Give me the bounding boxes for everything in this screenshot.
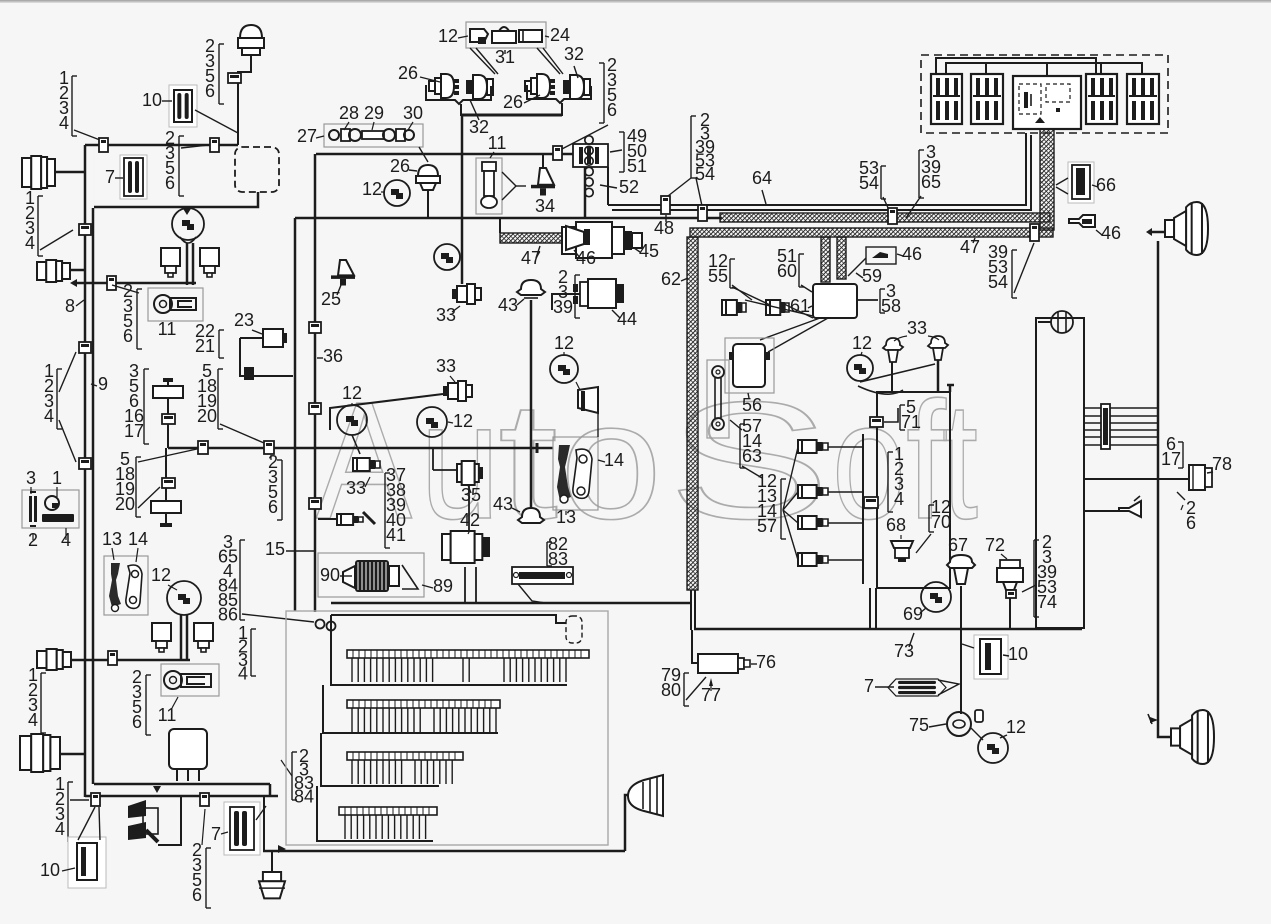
label 68 [886,515,906,539]
starter 45 [562,222,642,258]
connector under switch [162,414,175,424]
svg-text:78: 78 [1212,454,1232,474]
junction tick on bus y448 [536,443,539,453]
connector x557 y146 [553,146,562,160]
label 23 [234,310,262,334]
relay unit center [1013,76,1081,129]
dome lamp bottom-left [259,851,285,898]
svg-text:14: 14 [128,529,148,549]
svg-text:80: 80 [661,680,681,700]
label 7 top-left [105,167,123,187]
svg-text:6: 6 [1186,513,1196,533]
fuse 7 top-left [120,155,147,199]
wire comp44 [552,294,580,310]
label 1 2 3 4 col (cab right) [238,623,256,684]
label 2 3 5 6 col (x273) [268,452,282,520]
tick on box top [947,385,954,392]
label 36 [317,346,343,366]
svg-text:73: 73 [894,641,914,661]
label 62 [661,269,688,289]
wire x608 stub [607,167,609,205]
harness V2 vertical [687,237,698,590]
wire lamp L1 tap [55,171,85,174]
label 2 3 39 53 54 col [691,110,715,184]
label 33 c [346,477,370,498]
wire 43 vertical [530,300,533,508]
label 57 14 63 [740,416,762,468]
svg-text:4: 4 [44,406,54,426]
svg-text:42: 42 [460,510,480,530]
label 11 (plug) [488,133,507,158]
indicator lamp mid [318,512,375,525]
svg-text:52: 52 [619,177,639,197]
fuse 10 bottom-right [974,635,1008,679]
top box 31 group [466,22,546,48]
label 69 [903,604,926,624]
label 5 18 19 20 col (lower) [115,449,141,517]
label 13 center [556,507,576,527]
leader V left [470,48,498,74]
spark plug 11 box [476,158,502,214]
circle 12 (sensor pair) [847,355,873,381]
label 12 70 col [929,497,951,532]
clearance lamp top [238,25,264,55]
motor 90 [343,560,399,592]
arrow 89 [402,565,418,589]
svg-text:11: 11 [158,705,177,725]
label 82 83 [547,534,568,569]
wire bottom bus y851 [263,850,625,853]
leader 2356 to conn [181,145,208,148]
leader 12 55 [732,285,770,305]
label 6 17 col [1161,434,1183,469]
label 12 c [342,383,362,406]
label 46 right [1096,223,1121,243]
leader 2356 up [202,809,205,845]
pump item 1 [42,496,74,522]
wire lamp L4 tap [60,753,85,756]
wire stalk to bus [158,797,181,845]
svg-text:44: 44 [617,309,637,329]
label 15 [265,539,315,559]
connector 5-71 [870,417,883,427]
junction circles [316,620,336,631]
speedo box 27-30 [324,124,423,147]
leader 2-54 a [668,178,702,206]
comp 46 right [1069,215,1095,227]
label 35 [461,485,481,505]
label 12 (sensor pair) [852,333,872,355]
label 26 (right horn) [503,92,540,112]
svg-text:21: 21 [195,336,215,356]
label 12 d [554,333,574,356]
leader to connector [74,130,100,140]
wire lamps to vertical [828,434,863,584]
svg-text:12: 12 [852,333,872,353]
connector bus y448 b [264,441,274,454]
comp 23 valve [263,329,287,347]
svg-text:7: 7 [211,824,221,844]
lamp 3 of 4 [798,516,828,529]
plug leader [502,172,526,200]
lamp L1 left edge [22,156,55,189]
svg-text:12: 12 [1006,717,1026,737]
svg-text:11: 11 [488,133,507,153]
comb row 4 [339,807,437,839]
gauge 82 83 [512,567,573,584]
horn bracket right [527,85,591,116]
wire bus y218 [295,217,722,220]
leader 49-51 [610,150,622,152]
leader 2356 diag [560,125,608,150]
leader to conn y800 [70,799,89,801]
svg-text:69: 69 [903,604,923,624]
comb row 4 bottom wire [317,786,433,841]
sensor 33 a [452,284,481,304]
svg-text:41: 41 [386,525,406,545]
svg-text:46: 46 [902,244,922,264]
wires inside dashed box [936,58,1142,76]
label 1 2 3 4 col (x30) [25,188,43,256]
stalk arrows [128,800,158,842]
svg-text:10: 10 [40,860,60,880]
svg-text:4: 4 [25,233,35,253]
label 46 mid [574,248,596,268]
svg-text:32: 32 [564,44,584,64]
wire interior vertical x293 [294,218,297,611]
harness H2 horizontal [690,228,1053,237]
label 2 3 5 6 (cab) [132,667,151,735]
svg-text:64: 64 [752,168,772,188]
fog lamp bottom [628,775,663,816]
svg-text:56: 56 [742,395,762,415]
wire harness tail to bus [691,590,695,630]
sensor 33 pair b [928,336,948,360]
label 26 (coil) [390,156,417,176]
svg-text:33: 33 [907,318,927,338]
cap 43 top [517,280,545,298]
label 33 (pair) [894,318,939,341]
label 3 5 6 16 17 col [124,361,149,444]
svg-text:29: 29 [364,103,384,123]
svg-text:36: 36 [323,346,343,366]
label 34 [535,196,555,216]
buzzer horn icon [1119,496,1141,517]
leader 75 to 12 [971,728,983,740]
leader 57 col [730,420,762,478]
wire comb-area top [331,602,691,605]
wire comp35 to bus [433,448,457,470]
svg-text:6: 6 [205,81,215,101]
cap 43 bottom [518,508,544,523]
speedo cable glyph [329,129,414,141]
label 47 right [960,237,980,257]
wire fog lamp drop [625,795,628,851]
lamp socket cab left (down) [152,623,171,652]
chain 52 [585,136,593,197]
lamp stem pair [187,243,193,285]
stalk box 13 14 [104,556,148,615]
label 2 6 col [1177,492,1196,533]
wire second left vertical [92,208,95,784]
label 43 top [498,295,524,315]
sensor 33 pair a [883,338,903,362]
ignition switch 11 box [148,288,203,321]
svg-text:24: 24 [550,25,570,45]
leader 39-54 [1014,243,1034,293]
svg-text:3: 3 [26,468,36,488]
label 51 60 [777,246,804,287]
label 39 53 54 (right) [988,242,1017,298]
label 1 2 3 4 col (x49) [44,361,62,429]
svg-text:59: 59 [862,266,882,286]
wire comp35 to comp42 [468,484,470,531]
connector y796 b [200,793,209,806]
label 3 39 65 col [919,142,941,198]
comb wires to rear [1084,408,1158,445]
cone 46 mid [566,226,590,250]
sensor 33 b [443,381,472,401]
wire top-left horizontal [85,144,238,147]
label 37-41 col [385,465,406,548]
leader 30 to coil [419,147,428,162]
svg-text:45: 45 [639,241,659,261]
ignition lock 75 [947,710,983,736]
lever 14 [126,565,142,608]
label 12 (coil) [362,179,385,199]
relay 51 60 box [813,284,857,318]
comb box frame [286,611,608,845]
label 2 3 5 6 col (top-left) [205,36,224,104]
label 24 (top) [545,25,570,45]
connector on row2 [107,276,116,290]
label 27 [297,126,324,146]
svg-text:71: 71 [901,412,921,432]
wire 64 y205 [608,133,1026,205]
label 33 a [436,305,460,325]
connector left bus y464 [79,458,91,469]
label 2 3 39 53 74 col [1034,532,1057,617]
fuse block 2 [971,74,1003,124]
harness V1 vertical [1040,129,1054,230]
leader to conn y348 [59,352,76,392]
regulator 56 [729,344,770,387]
bell 34 [531,154,555,196]
comb row 2 bottom wire [323,685,498,733]
wire right main vertical [1158,241,1171,737]
wire horn bracket bus [461,114,562,117]
leader fuse7 br [938,680,959,695]
label 9 [91,374,108,394]
leader 51 60 [801,285,812,292]
svg-text:15: 15 [265,539,285,559]
svg-text:63: 63 [742,446,762,466]
comb row 1 [347,650,589,682]
wire sensor a drop [891,362,893,392]
wire 72 drop [1009,598,1011,629]
svg-text:33: 33 [436,305,456,325]
label 7 bottom-left [211,824,228,844]
svg-text:60: 60 [777,261,797,281]
fuse 7 bottom-left [224,802,260,855]
horn bracket left [426,85,491,116]
leader lamp fan [783,447,798,560]
cab lamp stem pair [181,615,187,660]
circle 12 top [434,244,460,270]
label 12 b right [448,411,473,431]
label 3 58 col [880,281,901,316]
svg-text:66: 66 [1096,175,1116,195]
label 76 [751,652,776,672]
relay box (cab floor) [169,729,207,781]
svg-text:86: 86 [218,605,238,625]
label 10 top-left [142,90,172,110]
harness H3 short [500,218,564,243]
svg-text:6: 6 [607,100,617,120]
svg-text:12: 12 [438,26,458,46]
harness stub to relay a [821,237,830,282]
connector on H2 right [1030,224,1039,241]
label 53 54 col [859,158,886,199]
flashlight 11 box [161,664,219,696]
wire buzzer [1084,510,1119,512]
tick on right vertical [1148,714,1158,724]
leader flasher [576,382,598,437]
lamp L4 left edge [20,734,60,772]
wire fuse10 leader [195,92,238,133]
svg-text:54: 54 [859,173,879,193]
svg-text:33: 33 [436,356,456,376]
regulator 56 outer [725,338,774,393]
svg-text:11: 11 [158,319,177,339]
comp 24 capsule [519,30,542,42]
svg-text:43: 43 [493,494,513,514]
wire loop circle to sensors [858,364,935,394]
label 73 [894,633,914,661]
svg-text:20: 20 [197,406,217,426]
labels 2 4 [28,528,71,550]
label 89 [422,576,453,596]
svg-text:12: 12 [342,383,362,403]
wire comp67 drop [960,586,962,714]
label 72 [985,535,1007,559]
label 56 [742,393,762,415]
horn 26 right [525,74,555,98]
ignition coil 26 [416,165,440,190]
comp 31 cap [492,27,516,43]
svg-text:35: 35 [461,485,481,505]
label 44 [612,309,637,329]
wire conn to box [884,408,898,422]
svg-text:54: 54 [695,164,715,184]
svg-text:30: 30 [403,103,423,123]
leader 46 to corner [848,258,866,276]
harness H1 horizontal [720,213,1050,222]
wire lower switch [165,448,167,501]
fuse block 1 [931,74,962,124]
washer circle 12 (cab) [167,581,201,615]
switch lower connector [162,478,175,488]
capacitor item 3 [29,492,37,526]
label 1 2 3 4 (x60) [55,774,73,842]
connector on left bus y230 [79,224,91,235]
comp 35 [457,461,483,485]
items 1 and 3 box [22,490,79,528]
leader 12 70 [916,534,931,553]
svg-text:28: 28 [339,103,359,123]
comp 67 [947,555,975,584]
label 42 [460,510,480,534]
svg-text:74: 74 [1037,592,1057,612]
dashed control unit [235,147,279,192]
label 2 3 5 6 col (x170) [165,128,184,196]
svg-text:t: t [498,368,558,554]
label 5 71 [900,397,921,432]
wire switch to bus [167,424,169,448]
wire interior vertical x315 [314,154,317,612]
connector right box left [864,497,878,508]
wire bottom double bus upper [94,783,270,786]
connector on wire y145 b [210,138,219,152]
wire comp42 to box [465,567,476,602]
label 77 [701,678,721,705]
svg-text:57: 57 [757,516,777,536]
svg-text:4: 4 [894,489,904,509]
svg-text:12: 12 [362,179,382,199]
lever 14 center [573,449,592,498]
svg-text:62: 62 [661,269,681,289]
svg-text:34: 34 [535,196,555,216]
motor 90 box [318,553,424,597]
label 2 3 5 6 col (x128) [123,281,142,349]
svg-text:4: 4 [59,113,69,133]
svg-text:6: 6 [123,326,133,346]
svg-text:13: 13 [556,507,576,527]
lamp 1 of 4 [798,440,828,453]
label 1 2 3 4 col (x64) [59,68,77,136]
wire main bus y448 [168,447,553,450]
svg-text:26: 26 [398,63,418,83]
leader to bus conn [40,230,73,250]
svg-text:7: 7 [105,167,115,187]
svg-text:12: 12 [554,333,574,353]
bell 25 [331,260,355,286]
svg-text:67: 67 [948,535,968,555]
lamp socket left (down) [161,248,180,277]
label 26 (left horn) [398,63,440,83]
wire top bus y154 [316,154,585,218]
connector y210 x699 [698,205,707,221]
leader 66 to harness [1056,178,1068,194]
dashed connector in comb box [566,616,582,643]
wire comp23 [240,338,293,376]
label 12 (cab) [151,565,177,590]
svg-text:4: 4 [28,710,38,730]
wire bottom bus y629 [694,628,1082,631]
svg-text:65: 65 [921,172,941,192]
leader 3 39 65 [906,196,921,218]
tick on bottom bus [153,786,161,793]
wire side lamp [1038,321,1051,323]
wire clearance lamp drop [238,53,251,145]
label 2 3 39 col [553,267,580,318]
lamp L2 left edge [37,260,70,282]
leader V right [537,48,563,74]
svg-text:6: 6 [132,712,142,732]
wire lamp row2 [70,279,196,287]
comp 76 [698,654,750,673]
label 2 3 83 84 col [281,746,314,807]
